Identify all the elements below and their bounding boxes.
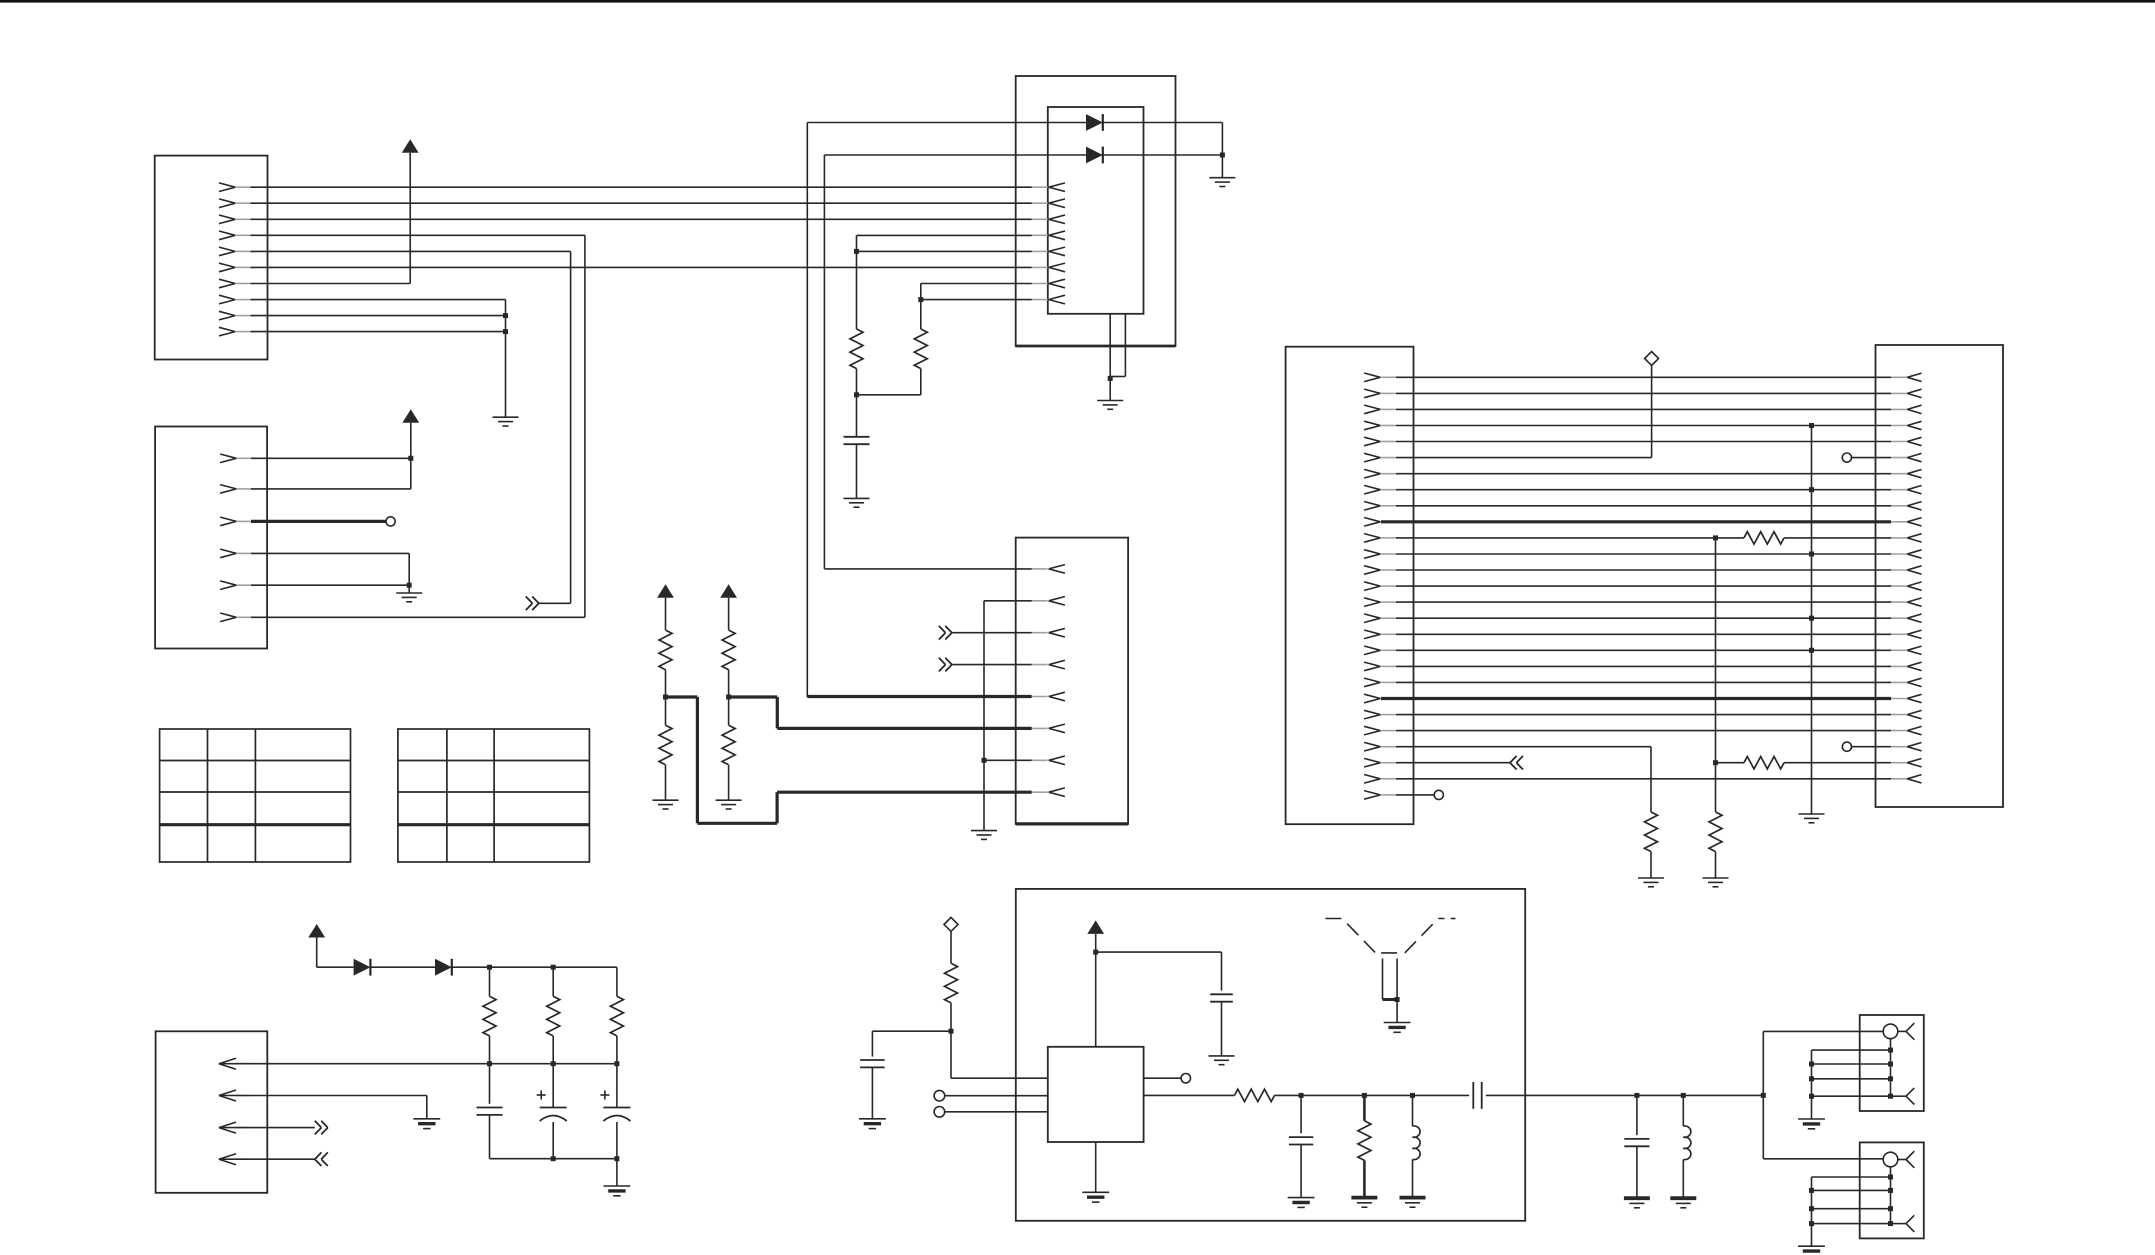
connector J5 pin 21 arrow bbox=[1891, 694, 1922, 702]
wire row 25 mid bbox=[1716, 762, 1745, 764]
diamond flag D-NET1 bbox=[1645, 352, 1659, 366]
connector J5 pin 18 arrow bbox=[1891, 646, 1922, 654]
wire row 6 right bbox=[1852, 457, 1892, 459]
wire J3-8 from pullup R4 bbox=[666, 697, 1032, 823]
resistor R13 bbox=[547, 967, 560, 1063]
wire row 25 right bbox=[1784, 762, 1891, 764]
resistor R7 bbox=[722, 697, 735, 800]
wire U1-7 branch bbox=[921, 284, 1032, 300]
wire U1 bottom pins bbox=[1110, 314, 1125, 379]
resistor R8 bbox=[1744, 532, 1784, 544]
connector J4 pin 26 arrow bbox=[1364, 775, 1396, 784]
resistor R1 bbox=[850, 251, 863, 368]
connector J5 pin 1 arrow bbox=[1891, 373, 1922, 381]
wire J2-5 bbox=[251, 584, 409, 586]
ground G22 bbox=[1670, 1198, 1696, 1208]
capacitor C6 bbox=[1210, 994, 1233, 1001]
connector J6 pin 1 arrow bbox=[219, 1058, 250, 1069]
wire J6-2 bbox=[219, 1096, 427, 1119]
resistor R5 bbox=[659, 697, 672, 800]
connector J5 pin 25 arrow bbox=[1891, 759, 1922, 767]
wire bus row 20 bbox=[1396, 681, 1891, 683]
node bus junction 1 bbox=[487, 1061, 492, 1066]
connector J5 pin 8 arrow bbox=[1891, 486, 1922, 494]
wire J6-4 bbox=[219, 1158, 315, 1160]
capacitor C5 bbox=[860, 1060, 885, 1067]
connector J4 pin 7 arrow bbox=[1364, 469, 1396, 478]
connector J5 box bbox=[1876, 345, 2004, 807]
transistor Q1 body bbox=[1383, 959, 1398, 1023]
no-connect circle U2 in1 bbox=[934, 1090, 945, 1101]
wire P1 ladder bbox=[1812, 1050, 1891, 1119]
connector J5 pin 7 arrow bbox=[1891, 470, 1922, 478]
connector J5 pin 2 arrow bbox=[1891, 389, 1922, 397]
wire J1-2 to U1-2 bbox=[251, 202, 1032, 204]
connector J4 pin 5 arrow bbox=[1364, 437, 1396, 446]
wire bus row 2 bbox=[1396, 392, 1891, 394]
node J2 ground junction bbox=[407, 583, 412, 588]
node P1 shield junction 2 bbox=[1888, 1062, 1893, 1067]
IC U2 box bbox=[1048, 1047, 1144, 1142]
wire J3-4 bbox=[952, 664, 1032, 666]
node R17 junction bbox=[1362, 1093, 1367, 1098]
connector J6 pin 3 arrow bbox=[219, 1122, 250, 1133]
offpage chevrons J3-4 bbox=[939, 658, 952, 672]
ground G21 bbox=[1624, 1198, 1650, 1208]
node row 8 junction bbox=[1809, 487, 1814, 492]
wire J3-2 bbox=[984, 601, 1032, 831]
top border bar bbox=[0, 0, 2155, 3]
connector J5 pin 26 arrow bbox=[1891, 775, 1922, 783]
wire J1-6 to U1-6 bbox=[251, 266, 1032, 268]
wire net A vertical bbox=[1715, 538, 1717, 812]
wire J3-3 bbox=[952, 632, 1032, 634]
node R1 top junction bbox=[854, 249, 859, 254]
connector J2 box bbox=[155, 427, 267, 649]
wire output to C9 bbox=[1275, 1094, 1470, 1096]
connector J3 pin 2 arrow bbox=[1032, 597, 1065, 606]
no-connect circle row 6 bbox=[1842, 453, 1851, 462]
wire U2 output bbox=[1144, 1094, 1235, 1096]
module M2 box bbox=[1016, 889, 1525, 1221]
resistor R4 bbox=[659, 598, 672, 670]
connector J5 pin 3 arrow bbox=[1891, 405, 1922, 413]
connector J5 pin 11 arrow bbox=[1891, 534, 1922, 542]
node L2 junction bbox=[1681, 1093, 1686, 1098]
connector J4 pin 17 arrow bbox=[1364, 630, 1396, 639]
wire P1 ladder row bbox=[1812, 1078, 1891, 1080]
connector J5 pin 16 arrow bbox=[1891, 614, 1922, 622]
inductor L2 bbox=[1683, 1095, 1691, 1198]
offpage connector chevrons (J1-5) bbox=[526, 597, 539, 611]
wire VCC6 to C6 bbox=[1096, 952, 1222, 991]
connector J2 pin 6 arrow bbox=[220, 613, 251, 622]
wire U1-8 branch bbox=[921, 299, 1032, 301]
wire P2 ladder row bbox=[1812, 1223, 1891, 1225]
node P2 ladder junction bbox=[1809, 1221, 1814, 1226]
ground G20 bbox=[1400, 1198, 1426, 1208]
wire U1-4 branch bbox=[857, 235, 1032, 251]
offpage chevrons row 25 bbox=[1510, 756, 1523, 770]
wire row 27 bbox=[1396, 794, 1434, 796]
connector J4 pin 10 arrow bbox=[1364, 518, 1396, 527]
connector J3 pin 6 arrow bbox=[1032, 724, 1065, 733]
ground G12 bbox=[604, 1159, 631, 1196]
power flag VCC2 bbox=[402, 409, 419, 423]
power flag VCC4 bbox=[720, 584, 737, 598]
no-connect circle row 24 bbox=[1842, 742, 1851, 751]
wire R15 to C5 bbox=[872, 1031, 951, 1056]
resistor R14 bbox=[610, 967, 623, 1063]
node row 4 junction bbox=[1809, 423, 1814, 428]
node row 18 junction bbox=[1809, 648, 1814, 653]
connector J1 pin 1 arrow bbox=[219, 183, 251, 192]
resistor R17 bbox=[1358, 1095, 1371, 1197]
connector J1 pin 9 arrow bbox=[219, 311, 251, 320]
connector J3 pin 8 arrow bbox=[1032, 788, 1065, 797]
node Q1 junction bbox=[1395, 997, 1400, 1002]
connector J4 pin 12 arrow bbox=[1364, 550, 1396, 559]
connector J3 pin 3 arrow bbox=[1032, 628, 1065, 637]
capacitor C9 bbox=[1624, 1095, 1649, 1198]
connector J5 pin 22 arrow bbox=[1891, 710, 1922, 718]
diamond flag D-NET2 bbox=[944, 917, 958, 931]
ground G3 bbox=[1209, 155, 1235, 187]
wire bus row 18 bbox=[1396, 649, 1891, 651]
ground G15 bbox=[1209, 1002, 1235, 1065]
connector J1 pin 4 arrow bbox=[219, 231, 251, 240]
wire bus row 23 bbox=[1396, 730, 1891, 732]
wire bus row 19 bbox=[1396, 665, 1891, 667]
node VCC6 junction bbox=[1093, 950, 1098, 955]
offpage chevrons J6-3 bbox=[315, 1121, 328, 1135]
ground G19 bbox=[1351, 1198, 1377, 1208]
wire row 24 left bbox=[1396, 747, 1651, 812]
wire J2-4 bbox=[251, 553, 409, 585]
ground G8 bbox=[716, 800, 742, 809]
connector J2 pin 4 arrow bbox=[220, 549, 251, 558]
node pullup junction 1 bbox=[663, 670, 668, 700]
wire J2-3 bold stub bbox=[251, 520, 386, 523]
connector J5 pin 12 arrow bbox=[1891, 550, 1922, 558]
connector J5 pin 14 arrow bbox=[1891, 582, 1922, 590]
wire bus row 15 bbox=[1396, 601, 1891, 603]
connector J6 box bbox=[156, 1031, 268, 1193]
ground G16 bbox=[1082, 1142, 1109, 1202]
node R8 left junction bbox=[1713, 535, 1718, 540]
power flag VCC5 bbox=[308, 924, 325, 938]
connector J4 pin 15 arrow bbox=[1364, 598, 1396, 607]
connector J2 pin 3 arrow bbox=[220, 517, 251, 526]
ground G17 bbox=[1384, 1023, 1411, 1033]
node C1 junction bbox=[854, 392, 859, 397]
connector J4 pin 19 arrow bbox=[1364, 662, 1396, 671]
IC U1 pin 2 arrow bbox=[1032, 199, 1065, 208]
node R9 left junction bbox=[1713, 760, 1718, 765]
connector J1 pin 8 arrow bbox=[219, 295, 251, 304]
node R15 junction bbox=[949, 1029, 954, 1034]
transistor Q1 dashed leads bbox=[1325, 919, 1455, 953]
wire row 11 left bbox=[1396, 537, 1744, 539]
connector J1 pin 6 arrow bbox=[219, 263, 251, 272]
table T2 bbox=[398, 729, 590, 862]
node P1 ladder junction bbox=[1809, 1094, 1814, 1099]
wire bus row 13 bbox=[1396, 569, 1891, 571]
wire bus row 17 bbox=[1396, 633, 1891, 635]
connector J4 pin 22 arrow bbox=[1364, 710, 1396, 719]
module M1 outer box bbox=[1016, 76, 1176, 346]
connector J3 pin 1 arrow bbox=[1032, 565, 1065, 574]
resistor R9 bbox=[1744, 757, 1784, 769]
offpage chevrons J3-3 bbox=[939, 626, 952, 640]
diode D1 bbox=[1086, 114, 1103, 131]
IC U1 pin 4 arrow bbox=[1032, 231, 1065, 240]
wire output to antennas bbox=[1486, 1094, 1764, 1096]
wire to antenna 2 bbox=[1763, 1095, 1883, 1158]
wire bus row 10 bold bbox=[1381, 520, 1891, 523]
connector J2 pin 1 arrow bbox=[220, 454, 251, 463]
wire U2 out2 bbox=[1144, 1077, 1182, 1079]
node rail R13 junction bbox=[551, 965, 556, 970]
connector J4 box bbox=[1286, 347, 1414, 825]
connector J4 pin 16 arrow bbox=[1364, 614, 1396, 623]
antenna P1 pin 2 arrow bbox=[1891, 1088, 1915, 1105]
node P1 shield junction 4 bbox=[1888, 1094, 1893, 1099]
wire net B vertical bbox=[1811, 426, 1813, 815]
node bus junction 2 bbox=[551, 1061, 556, 1066]
connector J4 pin 1 arrow bbox=[1364, 373, 1396, 382]
antenna jack circle P1 bbox=[1883, 1024, 1898, 1039]
capacitor C3 polarized bbox=[537, 1064, 567, 1159]
node P2 ladder junction bbox=[1809, 1188, 1814, 1193]
wire J3-6 from pullup R6 bbox=[729, 697, 1032, 728]
node R2 top junction bbox=[918, 297, 923, 302]
wire J1-10 bbox=[251, 331, 506, 333]
antenna jack circle P2 bbox=[1883, 1152, 1898, 1167]
ground G9 bbox=[1638, 852, 1664, 887]
ground G1 bbox=[493, 417, 519, 426]
ground G18 bbox=[1288, 1198, 1315, 1208]
node P1 ladder junction bbox=[1809, 1062, 1814, 1067]
wire J1-3 to U1-3 bbox=[251, 218, 1032, 220]
wire J1-8 ground net bbox=[251, 300, 506, 418]
wire J1-5 to offpage bbox=[251, 251, 571, 603]
connector J5 pin 6 arrow bbox=[1891, 453, 1922, 461]
wire J3-7 bbox=[984, 759, 1032, 761]
connector J4 pin 20 arrow bbox=[1364, 678, 1396, 687]
connector J5 pin 5 arrow bbox=[1891, 437, 1922, 445]
connector J4 pin 9 arrow bbox=[1364, 502, 1396, 511]
connector J6 pin 4 arrow bbox=[219, 1154, 250, 1165]
connector J5 pin 9 arrow bbox=[1891, 502, 1922, 510]
capacitor C4 polarized bbox=[600, 1064, 630, 1159]
wire J3-5 bold from D1 net bbox=[807, 695, 1031, 698]
wire J1-4 to J2-6 bbox=[251, 235, 585, 617]
connector J5 pin 24 arrow bbox=[1891, 743, 1922, 751]
wire R15 to U2 bbox=[951, 1031, 1048, 1078]
IC U1 pin 6 arrow bbox=[1032, 263, 1065, 272]
connector J2 pin 2 arrow bbox=[220, 485, 251, 494]
connector J4 pin 27 arrow bbox=[1364, 791, 1396, 800]
wire D1 net down bbox=[806, 123, 808, 698]
wire diode D1 anode bbox=[807, 122, 1086, 124]
IC U1 inner box bbox=[1048, 107, 1144, 314]
power flag VCC1 bbox=[402, 139, 419, 153]
ground G6 bbox=[971, 831, 997, 840]
wire P2 ladder row bbox=[1812, 1189, 1891, 1191]
connector J5 pin 17 arrow bbox=[1891, 630, 1922, 638]
node P1 shield junction 3 bbox=[1888, 1076, 1893, 1081]
ground G10 bbox=[1703, 852, 1729, 887]
no-connect circle U2 out2 bbox=[1181, 1074, 1190, 1083]
resistor R16 bbox=[1235, 1089, 1275, 1101]
wire P2 ladder bbox=[1812, 1177, 1891, 1246]
antenna P2 pin 2 arrow bbox=[1891, 1215, 1915, 1232]
ground G7 bbox=[653, 800, 679, 809]
node P1 ladder junction bbox=[1809, 1076, 1814, 1081]
connector J4 pin 3 arrow bbox=[1364, 405, 1396, 414]
node rail R12 junction bbox=[487, 965, 492, 970]
connector J4 pin 24 arrow bbox=[1364, 742, 1396, 751]
wire P2 shield stub bbox=[1890, 1167, 1892, 1224]
resistor R2 bbox=[914, 300, 927, 369]
no-connect circle row 27 bbox=[1434, 790, 1443, 799]
wire U1-5 branch bbox=[857, 250, 1032, 252]
connector J1 box bbox=[155, 156, 268, 360]
wire row 25 left bbox=[1396, 762, 1510, 764]
wire P1 shield stub bbox=[1890, 1039, 1892, 1097]
connector J3 box bottom bold bbox=[1016, 822, 1128, 825]
capacitor C2 bbox=[477, 1064, 503, 1159]
antenna P2 pin 1 arrow bbox=[1898, 1151, 1915, 1168]
capacitor C8 series bbox=[1473, 1082, 1481, 1109]
connector J1 pin 5 arrow bbox=[219, 247, 251, 256]
offpage chevrons J6-4 bbox=[315, 1152, 328, 1166]
connector J5 pin 10 arrow bbox=[1891, 518, 1922, 526]
connector J4 pin 21 arrow bbox=[1364, 694, 1396, 703]
wire J2-2 up bbox=[251, 423, 411, 489]
node J3-7 junction bbox=[982, 758, 987, 763]
module M1 outer box bottom bold bbox=[1016, 345, 1176, 348]
connector J1 pin 10 arrow bbox=[219, 327, 251, 336]
wire bus row 8 bbox=[1396, 489, 1891, 491]
node L1 junction bbox=[1410, 1093, 1415, 1098]
wire D2 cathode bbox=[1103, 154, 1223, 156]
wire diode D2 anode bbox=[824, 154, 1086, 156]
wire U2 in1 bbox=[945, 1095, 1048, 1097]
connector J1 pin 2 arrow bbox=[219, 199, 251, 208]
wire bus row 21 bold bbox=[1381, 697, 1891, 700]
wire bus row 7 bbox=[1396, 473, 1891, 475]
node U1 gnd junction bbox=[1108, 376, 1113, 381]
resistor R10 bbox=[1645, 812, 1658, 852]
wire bus row 22 bbox=[1396, 714, 1891, 716]
connector J4 pin 25 arrow bbox=[1364, 758, 1396, 767]
wire J1-7 to VCC bbox=[251, 153, 411, 284]
connector J4 pin 2 arrow bbox=[1364, 389, 1396, 398]
connector P2 box bbox=[1860, 1142, 1924, 1238]
IC U1 pin 1 arrow bbox=[1032, 183, 1065, 192]
wire row 11 right bbox=[1784, 537, 1891, 539]
node row 16 junction bbox=[1809, 616, 1814, 621]
ground P1 bbox=[1798, 1119, 1825, 1129]
node J2 VCC junction bbox=[408, 456, 413, 461]
connector J3 pin 5 arrow bbox=[1032, 692, 1065, 701]
ground G14 bbox=[859, 1067, 886, 1128]
connector J5 pin 23 arrow bbox=[1891, 726, 1922, 734]
connector J3 pin 7 arrow bbox=[1032, 756, 1065, 765]
power flag VCC6 bbox=[1087, 920, 1104, 934]
ground G13 bbox=[413, 1119, 440, 1129]
wire bus row 3 bbox=[1396, 408, 1891, 410]
wire bus row 4 bbox=[1396, 425, 1891, 427]
capacitor C1 bbox=[844, 395, 870, 444]
wire bus row 9 bbox=[1396, 505, 1891, 507]
wire D1 cathode bbox=[1103, 123, 1223, 156]
node row 12 junction bbox=[1809, 552, 1814, 557]
IC U1 pin 8 arrow bbox=[1032, 295, 1065, 304]
connector J4 pin 14 arrow bbox=[1364, 582, 1396, 591]
connector J5 pin 15 arrow bbox=[1891, 598, 1922, 606]
node P1 shield junction 1 bbox=[1888, 1048, 1893, 1053]
ground G4 bbox=[844, 444, 870, 507]
inductor L1 bbox=[1413, 1095, 1421, 1197]
connector P1 box bbox=[1860, 1015, 1924, 1111]
IC U1 pin 5 arrow bbox=[1032, 247, 1065, 256]
wire J2-1 to VCC node bbox=[251, 457, 411, 459]
node P2 shield junction 4 bbox=[1888, 1221, 1893, 1226]
connector J5 pin 19 arrow bbox=[1891, 662, 1922, 670]
wire bus row 16 bbox=[1396, 617, 1891, 619]
connector J6 pin 2 arrow bbox=[219, 1090, 250, 1101]
wire row 6 left bbox=[1396, 366, 1652, 458]
table T1 bbox=[160, 729, 351, 862]
wire J1-1 to U1-1 bbox=[251, 186, 1032, 188]
ground G11 bbox=[1799, 814, 1825, 823]
wire bus row 14 bbox=[1396, 585, 1891, 587]
wire D3 to D4 bbox=[370, 966, 435, 968]
wire bus row 12 bbox=[1396, 553, 1891, 555]
power flag VCC3 bbox=[657, 584, 674, 598]
connector J1 pin 7 arrow bbox=[219, 279, 251, 288]
diode D4 bbox=[435, 959, 452, 976]
wire VCC5 to D3 bbox=[317, 938, 354, 968]
connector J5 pin 13 arrow bbox=[1891, 566, 1922, 574]
no-connect circle U2 in2 bbox=[934, 1107, 945, 1118]
IC U1 pin 3 arrow bbox=[1032, 215, 1065, 224]
wire J3-1 from D2 net bbox=[824, 568, 1031, 570]
no-connect circle J2-3 bbox=[386, 517, 395, 526]
node C7 junction bbox=[1299, 1093, 1304, 1098]
ground G5 bbox=[1097, 378, 1123, 409]
node P2 shield junction 2 bbox=[1888, 1188, 1893, 1193]
node J1-9 junction bbox=[503, 313, 508, 318]
node bottom bus junction 1 bbox=[551, 1156, 556, 1161]
connector J3 box bbox=[1016, 538, 1128, 824]
resistor R11 bbox=[1709, 812, 1722, 852]
wire VCC6 down bbox=[1095, 934, 1097, 1047]
wire bus row 5 bbox=[1396, 441, 1891, 443]
connector J4 pin 4 arrow bbox=[1364, 421, 1396, 430]
node C9 junction bbox=[1634, 1093, 1639, 1098]
ground G2 bbox=[396, 585, 422, 602]
connector J4 pin 13 arrow bbox=[1364, 566, 1396, 575]
connector J4 pin 18 arrow bbox=[1364, 646, 1396, 655]
wire D4 rail bbox=[452, 966, 617, 968]
node bottom bus junction 2 bbox=[614, 1156, 619, 1161]
wire D2 net down bbox=[823, 155, 825, 569]
wire U2 in2 bbox=[945, 1111, 1048, 1113]
